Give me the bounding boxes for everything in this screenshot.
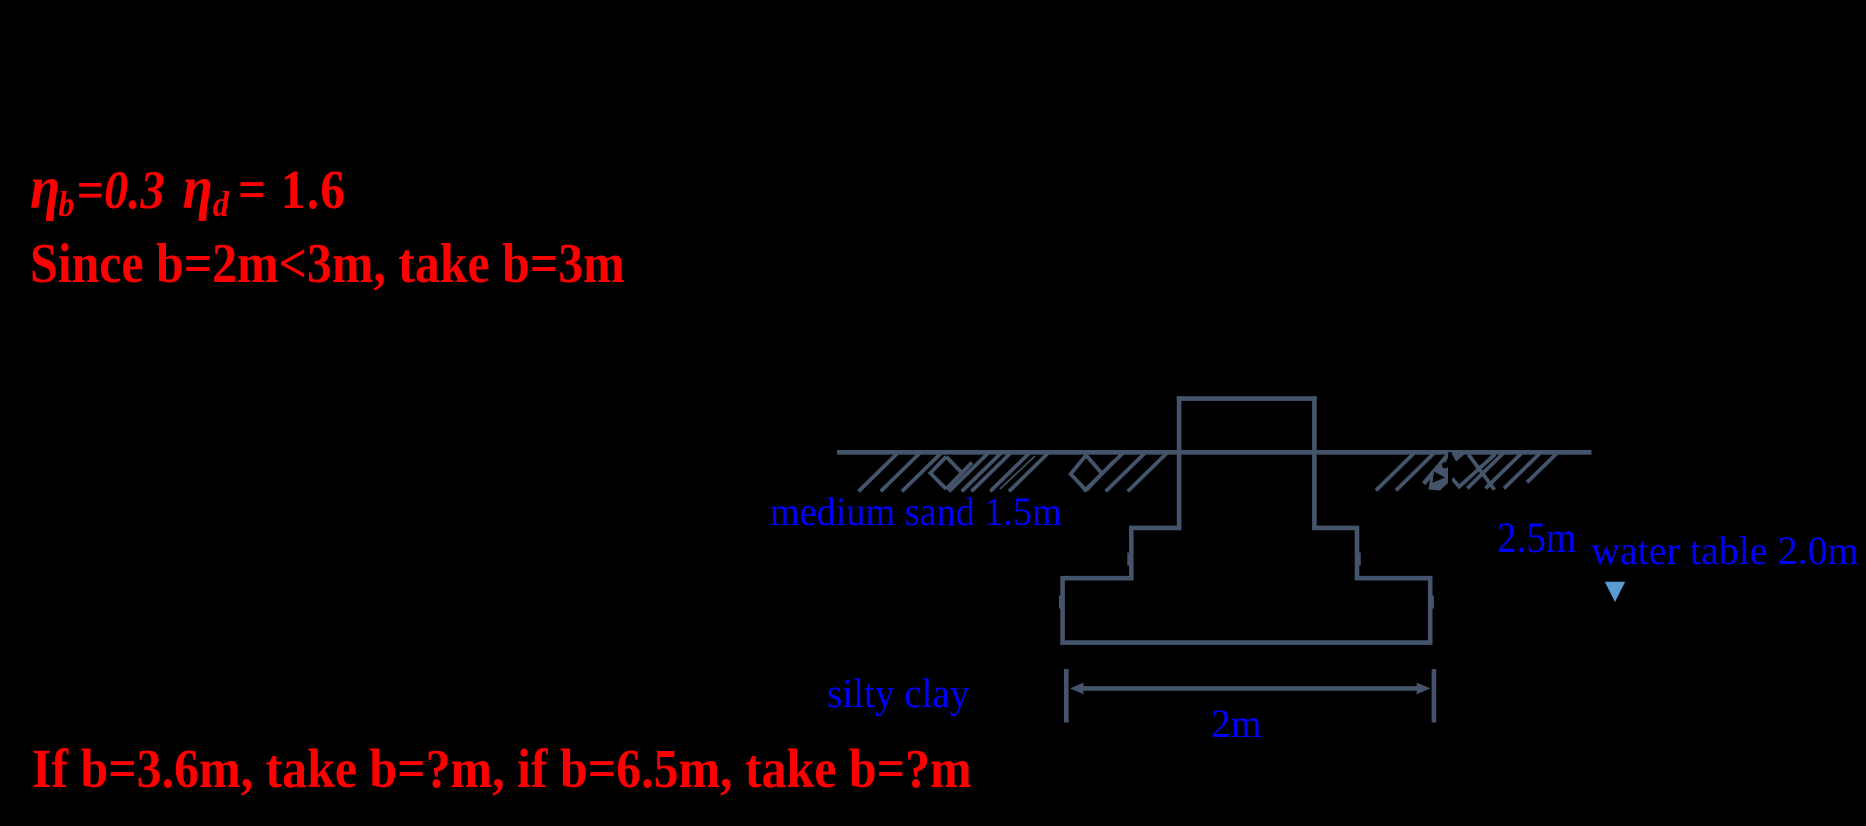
blue label: water table 2.0m [1591, 531, 1859, 571]
dimension arrowhead right [1417, 683, 1431, 695]
step1 left ledge [1129, 526, 1181, 531]
black notch wedge in fill [1433, 472, 1446, 483]
left diamond 1 [930, 457, 972, 489]
ground surface line [837, 450, 1592, 455]
left diamond 2 [1071, 455, 1114, 490]
red text bottom line [32, 741, 972, 796]
right motif descending edge [1469, 455, 1495, 490]
blue label: silty clay [827, 673, 969, 714]
column top edge [1177, 396, 1317, 401]
step1 right ledge [1312, 526, 1359, 531]
right motif check stroke [1452, 454, 1495, 486]
blue label: 2.5m [1497, 517, 1576, 560]
step2 left ledge [1060, 576, 1133, 581]
blue label: medium sand 1.5m [770, 492, 1062, 532]
black cursor arrow cutout [1442, 452, 1457, 487]
step1 left vertical [1129, 528, 1134, 581]
step1 right vertical [1355, 528, 1360, 581]
column left edge [1177, 396, 1182, 530]
seam tick step1 left [1127, 553, 1131, 566]
dimension tick right [1432, 669, 1437, 723]
footing base bottom edge [1060, 640, 1432, 645]
right motif filled wedge [1429, 452, 1451, 490]
thin sketch stroke [1000, 456, 1035, 489]
water table symbol triangle [1605, 582, 1625, 602]
seam tick step2 left [1059, 596, 1063, 609]
dimension line 2m [1082, 686, 1418, 691]
right motif thick peak stroke [1424, 452, 1451, 484]
step2 right ledge [1355, 576, 1433, 581]
blue label: 2m [1211, 704, 1262, 744]
left hatch group [859, 453, 898, 491]
step2 right vertical [1428, 578, 1433, 645]
seam tick step1 right [1357, 553, 1361, 566]
right motif small wedge right of arrow tip [1451, 453, 1467, 462]
seam tick step2 right [1430, 596, 1434, 609]
red text line: Since b=2m<3m, take b=3m [30, 236, 625, 292]
step2 left vertical [1060, 578, 1065, 645]
dimension tick left [1064, 669, 1069, 723]
right hatch group [1376, 453, 1414, 490]
column right edge [1312, 396, 1317, 530]
dimension arrowhead left [1070, 683, 1084, 695]
red formula line eta_b=0.3 eta_d=1.6 [30, 158, 346, 219]
